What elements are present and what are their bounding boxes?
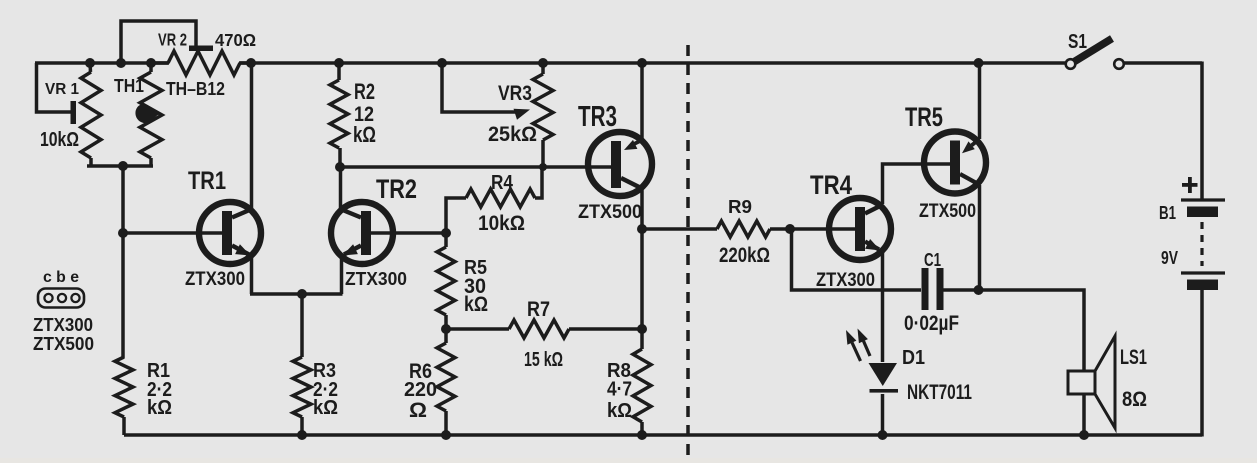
label TR3 xyxy=(578,101,617,133)
label R5 xyxy=(464,257,487,279)
pinout pads xyxy=(44,294,79,302)
wire VR1 wiper loop xyxy=(37,63,72,112)
svg-text:15 kΩ: 15 kΩ xyxy=(524,349,563,371)
wire TR4 base xyxy=(790,227,855,231)
svg-text:kΩ: kΩ xyxy=(464,293,488,316)
wire C1 to TR5 collector xyxy=(944,288,979,292)
node top rail VR1 xyxy=(85,58,95,68)
wire LS1 ground xyxy=(1082,394,1086,435)
label R2 value1 xyxy=(354,101,374,126)
wire top supply rail xyxy=(35,62,1202,201)
node R5 bottom junction xyxy=(441,324,451,334)
svg-text:VR 1: VR 1 xyxy=(45,80,79,98)
svg-text:TR4: TR4 xyxy=(810,169,852,200)
wire TR4 collector xyxy=(865,164,950,214)
wire TR1 collector xyxy=(232,63,253,218)
label VR2 value xyxy=(215,30,256,50)
wire VR1-TH1 bottom xyxy=(87,164,153,168)
svg-text:ZTX500: ZTX500 xyxy=(33,334,94,354)
label R5 value2 xyxy=(464,293,488,316)
LED D1 xyxy=(869,363,899,435)
label pinout cbe xyxy=(43,269,79,286)
svg-text:S1: S1 xyxy=(1068,31,1087,53)
wire TR5 collector to LS1 xyxy=(979,290,1085,371)
svg-text:9V: 9V xyxy=(1161,248,1178,268)
transistor TR3 xyxy=(588,132,652,196)
svg-text:D1: D1 xyxy=(902,347,925,369)
svg-text:8Ω: 8Ω xyxy=(1122,386,1147,411)
svg-text:R7: R7 xyxy=(527,298,550,321)
label TR5 xyxy=(905,101,943,132)
wire bottom ground rail xyxy=(124,289,1202,437)
svg-text:VR 2: VR 2 xyxy=(158,30,187,50)
capacitor C1 xyxy=(922,268,944,310)
node top rail TR5 xyxy=(974,58,984,68)
svg-text:10kΩ: 10kΩ xyxy=(40,129,79,151)
label R2 xyxy=(354,79,375,104)
svg-text:TH1: TH1 xyxy=(114,76,144,97)
node top rail VR3 wiper xyxy=(437,58,447,68)
node top rail R2 xyxy=(334,58,344,68)
label R1 value1 xyxy=(147,379,172,401)
svg-text:VR3: VR3 xyxy=(498,80,532,105)
wire R8 top xyxy=(640,229,644,349)
svg-text:25kΩ: 25kΩ xyxy=(488,121,537,146)
label TR3 type xyxy=(578,201,642,223)
label pinout ZTX500 xyxy=(33,334,94,354)
label VR1 xyxy=(45,80,79,98)
label VR3 value xyxy=(488,121,537,146)
svg-text:220: 220 xyxy=(404,379,437,401)
label B1 plus xyxy=(1182,177,1198,193)
potentiometer VR2 wiper bar xyxy=(189,46,213,52)
node VR3 bottom junction xyxy=(539,163,547,171)
label B1 voltage xyxy=(1161,248,1178,268)
label TH1 type xyxy=(166,79,225,100)
svg-text:TR2: TR2 xyxy=(376,173,417,204)
node R3 ground xyxy=(297,430,307,440)
label R8 xyxy=(607,360,631,382)
label B1 xyxy=(1159,203,1176,224)
resistor R1 xyxy=(115,357,133,435)
wire R3 top xyxy=(300,294,304,357)
wire TR1-TR2 emitter bus xyxy=(250,292,343,296)
node top rail VR3 xyxy=(538,58,548,68)
label C1 value xyxy=(904,312,959,335)
label R8 value1 xyxy=(607,379,632,401)
potentiometer VR2 wiper loop xyxy=(121,21,196,63)
svg-text:ZTX300: ZTX300 xyxy=(816,269,875,291)
label pinout ZTX300 xyxy=(33,315,93,335)
node TR1 base junction xyxy=(118,228,128,238)
svg-text:470Ω: 470Ω xyxy=(215,30,256,50)
speaker LS1 xyxy=(1068,336,1115,428)
label VR2 xyxy=(158,30,187,50)
node TR3 collector junction xyxy=(637,224,647,234)
potentiometer VR1 xyxy=(71,63,102,166)
svg-text:ZTX500: ZTX500 xyxy=(919,200,976,222)
svg-text:Ω: Ω xyxy=(409,399,427,422)
wire TR2 emitter xyxy=(342,244,362,294)
transistor TR4 xyxy=(829,198,891,260)
label R2 value2 xyxy=(353,122,376,147)
wire TR3 collector to R9 xyxy=(642,227,717,231)
svg-text:kΩ: kΩ xyxy=(607,400,632,422)
wire TR3 collector xyxy=(621,178,643,229)
svg-text:0·02µF: 0·02µF xyxy=(904,312,959,335)
label R4 xyxy=(491,172,514,194)
node R6 ground xyxy=(441,430,451,440)
wire left bias column xyxy=(121,166,125,358)
node TR5 collector junction xyxy=(974,285,984,295)
node top rail TH1 xyxy=(146,58,156,68)
label TR5 type xyxy=(919,200,976,222)
label TR2 xyxy=(376,173,417,204)
label VR1 value xyxy=(40,129,79,151)
label R5 value1 xyxy=(464,275,486,298)
label R4 value xyxy=(478,210,525,235)
potentiometer VR3 element xyxy=(533,63,553,167)
node TR4 base junction xyxy=(785,224,795,234)
svg-text:TR5: TR5 xyxy=(905,101,943,132)
svg-text:220kΩ: 220kΩ xyxy=(719,244,770,267)
svg-text:B1: B1 xyxy=(1159,203,1176,224)
label R3 value2 xyxy=(313,397,338,419)
label R6 value1 xyxy=(404,379,437,401)
label C1 xyxy=(924,250,941,271)
label R9 value xyxy=(719,244,770,267)
node top rail VR2 left xyxy=(116,58,126,68)
label TR2 type xyxy=(345,269,407,290)
wire TR4 emitter xyxy=(865,239,883,362)
svg-text:R4: R4 xyxy=(491,172,514,194)
label D1 type xyxy=(907,379,972,404)
label VR3 xyxy=(498,80,532,105)
svg-text:NKT7011: NKT7011 xyxy=(907,379,972,404)
svg-text:kΩ: kΩ xyxy=(147,397,172,419)
pinout package outline xyxy=(38,289,84,308)
label S1 xyxy=(1068,31,1087,53)
battery B1 positive plate xyxy=(1181,198,1225,201)
resistor R7 xyxy=(509,320,569,338)
label TR1 xyxy=(188,167,226,195)
label R1 xyxy=(147,360,170,382)
svg-text:LS1: LS1 xyxy=(1120,346,1147,369)
svg-text:TH–B12: TH–B12 xyxy=(166,79,225,100)
thermistor TH1 xyxy=(133,63,162,166)
wire TR1 base xyxy=(123,231,223,235)
transistor TR5 xyxy=(924,132,986,194)
resistor R6 xyxy=(437,329,455,435)
label TH1 xyxy=(114,76,144,97)
node R2 bottom junction xyxy=(335,162,345,172)
label R7 value xyxy=(524,349,563,371)
label D1 xyxy=(902,347,925,369)
node top rail TR3 xyxy=(637,58,647,68)
resistor R3 xyxy=(293,357,311,435)
svg-text:C1: C1 xyxy=(924,250,941,271)
node TR2 base junction xyxy=(441,228,451,238)
svg-text:ZTX500: ZTX500 xyxy=(578,201,642,223)
label R7 xyxy=(527,298,550,321)
node R8 ground xyxy=(637,430,647,440)
resistor R8 xyxy=(633,349,651,435)
wire TR1 emitter xyxy=(232,244,252,294)
label R8 value2 xyxy=(607,400,632,422)
label R6 xyxy=(409,360,432,383)
svg-text:kΩ: kΩ xyxy=(353,122,376,147)
svg-text:ZTX300: ZTX300 xyxy=(33,315,93,335)
label R1 value2 xyxy=(147,397,172,419)
svg-text:4·7: 4·7 xyxy=(607,379,632,401)
node VR1/TH1 bottom junction xyxy=(118,161,128,171)
label R3 xyxy=(313,360,336,382)
transistor TR1 xyxy=(199,202,261,264)
label LS1 value xyxy=(1122,386,1147,411)
resistor R5 xyxy=(437,233,455,329)
label LS1 xyxy=(1120,346,1147,369)
label R6 value2 xyxy=(409,399,427,422)
node R7/R8 junction xyxy=(637,324,647,334)
wire TR2 collector xyxy=(339,167,361,218)
wire R7 line xyxy=(446,327,642,331)
wire TR5 collector xyxy=(960,174,980,290)
label TR1 type xyxy=(185,268,245,290)
label TR4 xyxy=(810,169,852,200)
label R3 value1 xyxy=(313,379,338,401)
svg-text:kΩ: kΩ xyxy=(313,397,338,419)
transistor TR2 xyxy=(331,202,393,264)
node D1 ground xyxy=(878,430,888,440)
label TR4 type xyxy=(816,269,875,291)
LED D1 emission arrows xyxy=(846,329,870,362)
resistor R2 xyxy=(330,63,348,167)
battery B1 internal dashed link xyxy=(1200,222,1203,266)
svg-text:TR1: TR1 xyxy=(188,167,226,195)
battery B1 positive plate 2 xyxy=(1181,271,1225,274)
node top rail TR1 collector xyxy=(246,58,256,68)
wire TR3 emitter xyxy=(624,63,643,150)
svg-text:TR3: TR3 xyxy=(578,101,617,133)
wire TR2 base xyxy=(371,231,446,235)
node LS1 ground xyxy=(1079,430,1089,440)
wire TR5 emitter xyxy=(962,63,980,153)
switch S1 xyxy=(1066,39,1124,69)
svg-text:c b e: c b e xyxy=(43,269,79,286)
battery B1 negative plate xyxy=(1187,207,1218,218)
potentiometer VR3 wiper xyxy=(442,63,530,120)
potentiometer VR2 element xyxy=(151,51,251,75)
resistor R4 xyxy=(446,167,542,233)
wire base line to TR3 xyxy=(340,165,611,169)
resistor R9 xyxy=(717,221,790,237)
node emitter bus junction xyxy=(297,289,307,299)
dashed separator line xyxy=(686,45,690,455)
svg-text:ZTX300: ZTX300 xyxy=(345,269,407,290)
svg-text:R9: R9 xyxy=(728,197,752,218)
label R9 xyxy=(728,197,752,218)
svg-text:10kΩ: 10kΩ xyxy=(478,210,525,235)
wire TR4 base-emitter loop xyxy=(792,229,922,290)
battery B1 negative plate 2 xyxy=(1187,280,1218,291)
svg-text:ZTX300: ZTX300 xyxy=(185,268,245,290)
